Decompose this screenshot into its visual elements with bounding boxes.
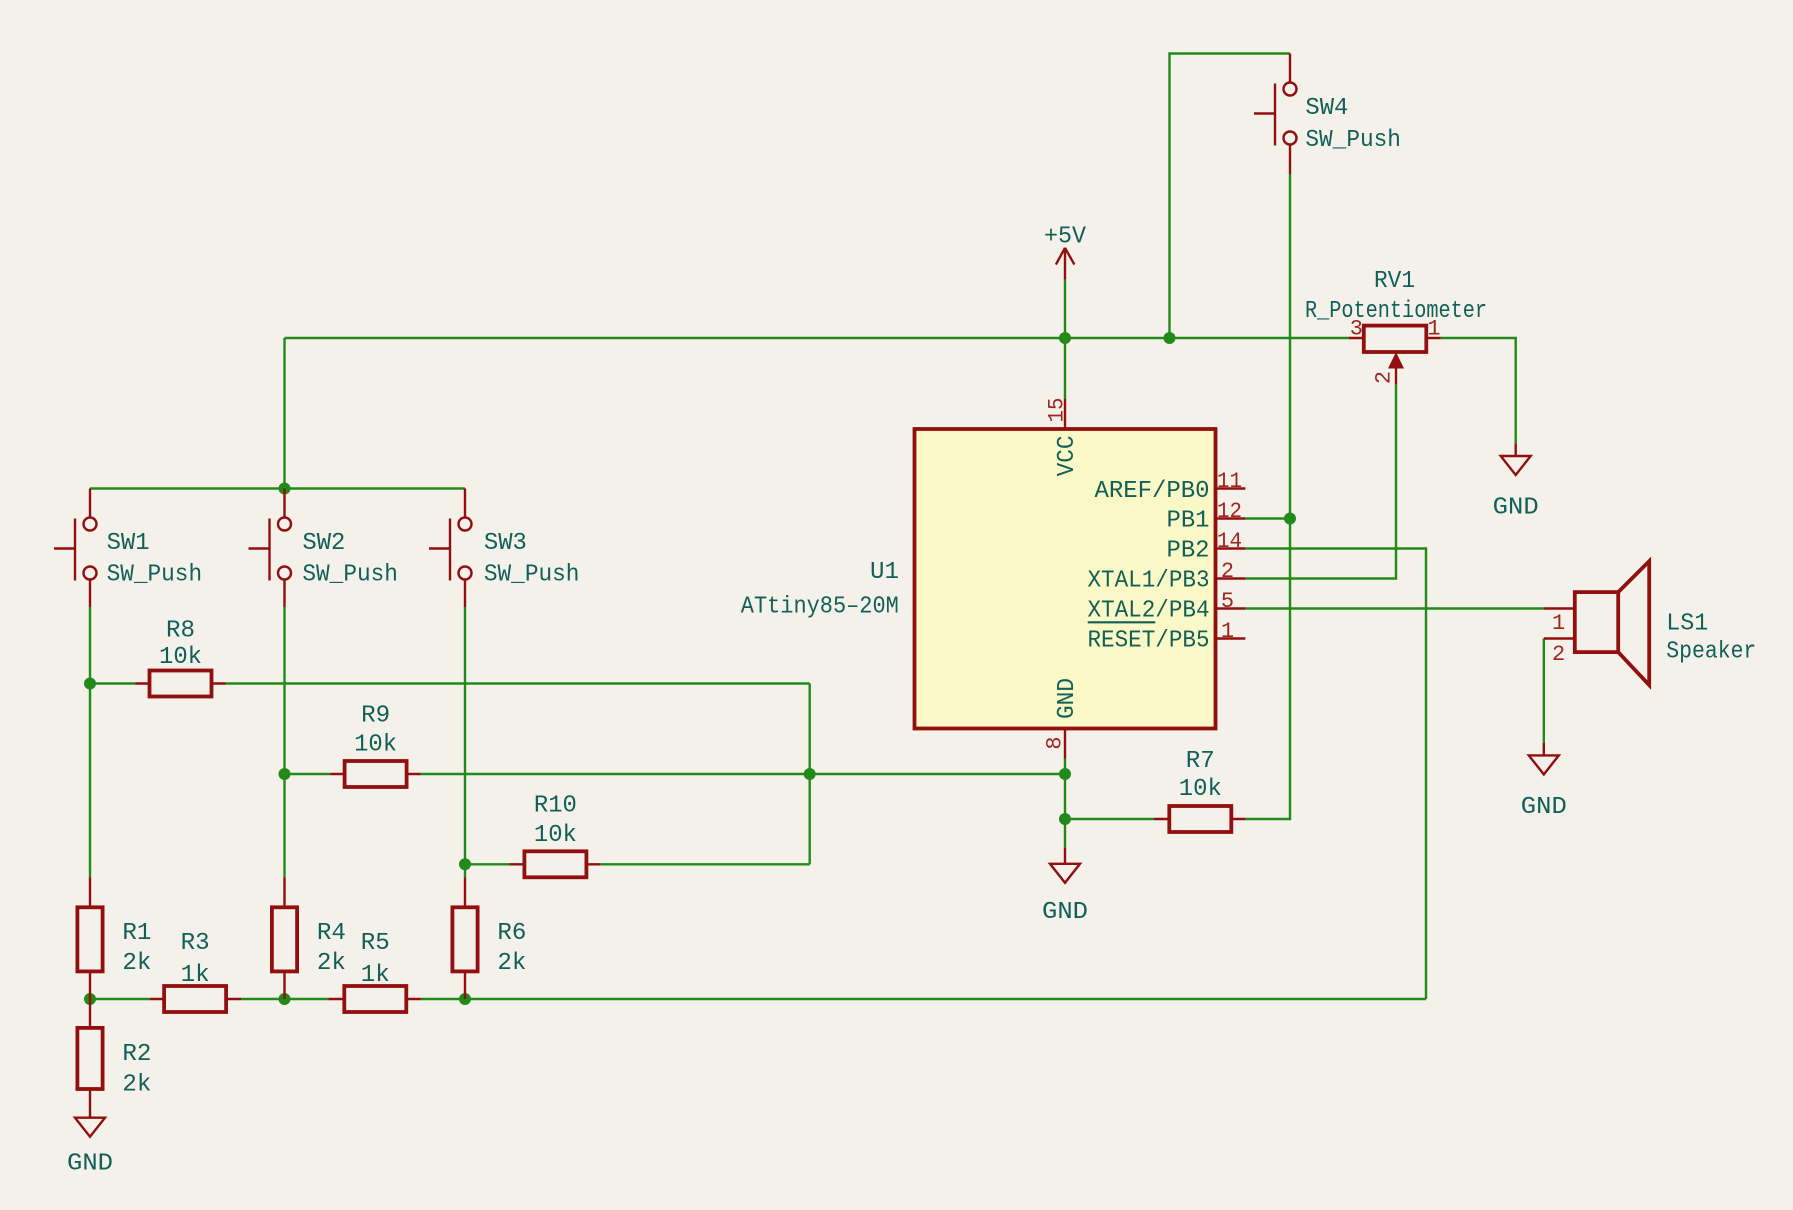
svg-text:SW4: SW4 [1305,95,1348,122]
wire PB1 to node [1245,517,1290,519]
svg-text:GND: GND [67,1151,113,1178]
svg-text:R10: R10 [534,793,577,820]
svg-text:10k: 10k [1179,776,1222,803]
U1 pin 1 RESET/PB5 (with overbar) [1215,637,1245,639]
wire bottom bus segment 1 [90,998,150,1000]
wire SW4 top loop [1170,54,1291,339]
wire R10 left [465,863,510,865]
node junction R9 left [279,768,291,780]
svg-text:R1: R1 [122,920,151,947]
wire SW1 down [89,607,91,877]
svg-text:10k: 10k [354,732,397,759]
wire R9 left [285,773,331,775]
svg-text:2k: 2k [122,950,151,977]
node junction SW bus feed [279,483,291,495]
node junction GND pin [1059,768,1071,780]
svg-text:RV1: RV1 [1374,268,1415,295]
svg-text:R_Potentiometer: R_Potentiometer [1305,298,1487,325]
wire SW3 down [464,607,466,877]
resistor R9 10k [331,703,421,788]
wire switch bus y=488.5 [90,487,465,489]
wire RV1 pin1 to GND [1441,338,1516,443]
U1 pin 8 GND (bottom) [1064,729,1066,759]
potentiometer RV1 [1305,268,1487,385]
wire R8 left [90,682,136,684]
resistor R10 10k [510,793,601,878]
svg-text:R9: R9 [361,703,390,730]
wire +5V rail y=338 [285,337,1349,339]
wire rail feed down to switch bus [283,338,285,489]
resistor R1 2k [77,877,151,999]
wire R10 right [601,863,810,865]
svg-text:1: 1 [1427,317,1440,342]
wire mid vertical [809,684,811,865]
IC U1 ATtiny85-20M [741,429,1216,729]
wire PB2 to right vertical [1245,549,1426,1000]
svg-text:AREF/PB0: AREF/PB0 [1095,478,1210,505]
wire XTAL2 to speaker [1245,607,1543,609]
resistor R4 2k [272,877,346,999]
svg-text:2: 2 [1552,642,1565,667]
node junction bus R1 [84,993,96,1005]
svg-text:15: 15 [1045,398,1070,423]
svg-text:SW_Push: SW_Push [1305,127,1401,154]
wire SW2 down [283,607,285,877]
node junction R8 left [84,678,96,690]
svg-text:3: 3 [1350,317,1363,342]
U1 pin 11 AREF/PB0 [1215,487,1245,489]
wire XTAL1 to wiper [1245,384,1396,578]
svg-text:SW2: SW2 [302,530,345,557]
resistor R2 2k [77,999,151,1118]
svg-text:GND: GND [1493,495,1539,522]
U1 pin 12 PB1 [1215,517,1245,519]
node junction rail / SW4 [1164,332,1176,344]
svg-text:10k: 10k [534,822,577,849]
wire R9 right to GND node [421,773,1066,775]
switch SW2 [249,489,398,608]
wire bottom bus segment 2 [241,998,328,1000]
svg-text:1k: 1k [361,962,390,989]
resistor R5 1k [328,930,420,1012]
svg-text:2: 2 [1221,559,1234,584]
svg-text:GND: GND [1054,678,1081,719]
svg-text:Speaker: Speaker [1666,639,1756,666]
node junction bus R6 [459,993,471,1005]
ground GND (speaker) [1521,743,1567,821]
svg-text:R7: R7 [1186,748,1215,775]
switch SW1 [54,489,202,608]
wire bottom bus segment 3 [421,998,1427,1000]
resistor R6 2k [452,877,526,999]
svg-text:XTAL1/PB3: XTAL1/PB3 [1088,567,1210,594]
svg-text:2k: 2k [497,950,526,977]
svg-text:12: 12 [1217,499,1242,524]
svg-text:PB1: PB1 [1167,507,1210,534]
speaker LS1 [1544,561,1757,685]
wire R8 right to mid vertical [226,682,810,684]
svg-text:R5: R5 [361,930,390,957]
wire speaker pin2 down [1543,639,1545,744]
svg-text:XTAL2/PB4: XTAL2/PB4 [1088,597,1210,624]
svg-text:SW1: SW1 [107,530,150,557]
wire +5V stem to VCC [1064,280,1066,399]
svg-text:SW_Push: SW_Push [484,562,580,589]
svg-text:SW3: SW3 [484,530,527,557]
node junction PB1 [1284,513,1296,525]
svg-text:1: 1 [1552,611,1565,636]
node junction bus R4 [279,993,291,1005]
svg-text:SW_Push: SW_Push [302,562,398,589]
svg-text:8: 8 [1043,736,1068,749]
svg-text:RESET/PB5: RESET/PB5 [1088,627,1210,654]
svg-text:R6: R6 [497,920,526,947]
U1 pin 2 XTAL1/PB3 [1215,577,1245,579]
resistor R8 10k [136,618,226,697]
switch SW4 [1254,54,1401,175]
node junction +5V rail / VCC [1059,332,1071,344]
svg-text:R8: R8 [166,618,195,645]
svg-text:LS1: LS1 [1666,610,1708,637]
svg-text:2: 2 [1372,371,1397,384]
wire SW4 bottom vertical [1289,174,1291,519]
svg-text:+5V: +5V [1044,224,1087,251]
node junction R10 left [459,858,471,870]
wire R7 left [1065,818,1154,820]
svg-text:2k: 2k [122,1071,151,1098]
power +5V symbol [1044,224,1087,280]
U1 pin 14 PB2 [1215,547,1245,549]
svg-text:VCC: VCC [1054,435,1081,476]
wire GND pin stem [1064,759,1066,848]
svg-text:GND: GND [1042,899,1088,926]
svg-text:1: 1 [1221,619,1234,644]
svg-text:R4: R4 [317,920,346,947]
svg-text:U1: U1 [870,559,899,586]
svg-text:ATtiny85–20M: ATtiny85–20M [741,593,899,620]
svg-text:11: 11 [1217,469,1242,494]
ground GND (R2) [67,1118,113,1178]
svg-text:SW_Push: SW_Push [107,562,203,589]
svg-text:PB2: PB2 [1167,537,1210,564]
svg-text:2k: 2k [317,950,346,977]
resistor R7 10k [1154,748,1245,832]
node junction R9 line mid [804,768,816,780]
ground GND (RV1) [1493,443,1539,521]
svg-text:1k: 1k [181,962,210,989]
U1 pin 5 XTAL2/PB4 [1215,607,1245,609]
svg-text:10k: 10k [159,644,202,671]
switch SW3 [429,489,579,608]
wire R7 right up to PB1 node [1245,519,1290,820]
svg-text:5: 5 [1221,589,1234,614]
U1 pin 15 VCC (top) [1064,399,1066,429]
svg-text:R2: R2 [122,1041,151,1068]
svg-text:GND: GND [1521,794,1567,821]
resistor R3 1k [150,930,241,1012]
svg-text:14: 14 [1217,529,1242,554]
svg-text:R3: R3 [181,930,210,957]
node junction R7 left [1059,813,1071,825]
ground GND (U1 pin 8) [1042,847,1088,926]
